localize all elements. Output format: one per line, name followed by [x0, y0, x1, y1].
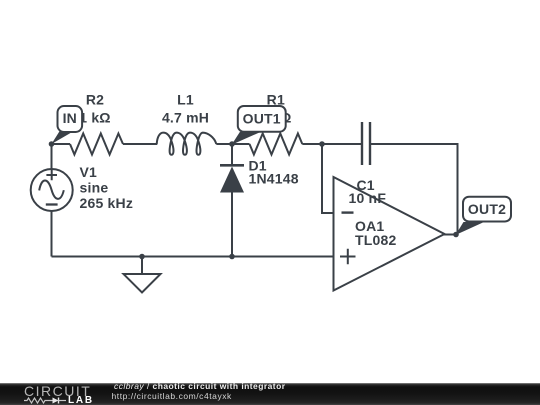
resistor R2	[70, 134, 123, 155]
flag OUT1	[232, 106, 286, 145]
node OUT1	[229, 141, 235, 147]
wire	[322, 144, 334, 213]
diode D1	[220, 165, 244, 192]
svg-text:OUT1: OUT1	[243, 111, 281, 127]
wire	[51, 144, 53, 169]
svg-text:4.7 mH: 4.7 mH	[162, 110, 209, 126]
node ground	[139, 254, 145, 260]
flag IN	[52, 106, 83, 144]
footer bar	[0, 383, 540, 405]
svg-text:265 kHz: 265 kHz	[80, 195, 134, 211]
wire	[216, 143, 249, 145]
svg-text:TL082: TL082	[355, 232, 396, 248]
svg-text:LAB: LAB	[68, 395, 94, 405]
node D1 bottom	[229, 254, 235, 260]
svg-text:1 kΩ: 1 kΩ	[79, 110, 111, 126]
svg-text:OUT2: OUT2	[468, 201, 506, 217]
svg-text:1N4148: 1N4148	[249, 171, 299, 187]
svg-text:L1: L1	[177, 92, 194, 108]
wire	[52, 143, 71, 145]
wire	[123, 143, 157, 145]
svg-text:V1: V1	[80, 164, 98, 180]
resistor R1	[250, 134, 303, 155]
svg-text:IN: IN	[63, 110, 77, 126]
svg-text:R2: R2	[86, 92, 104, 108]
node IN	[49, 141, 55, 147]
wire	[302, 143, 361, 145]
capacitor C1	[362, 122, 370, 165]
wire	[371, 144, 458, 235]
source V1	[31, 169, 73, 211]
op-amp OA1	[334, 177, 445, 291]
inductor L1	[157, 133, 217, 155]
svg-text:10 nF: 10 nF	[349, 190, 387, 206]
wire	[52, 256, 334, 258]
svg-text:sine: sine	[80, 180, 109, 196]
logo diode	[53, 398, 59, 404]
logo resistor	[24, 398, 53, 403]
wire	[51, 211, 53, 257]
wire	[231, 192, 233, 257]
flag OUT2	[456, 197, 512, 235]
node A	[319, 141, 325, 147]
wire	[231, 144, 233, 165]
ground	[124, 274, 161, 293]
wire	[141, 257, 143, 275]
node OUT2	[453, 232, 459, 238]
